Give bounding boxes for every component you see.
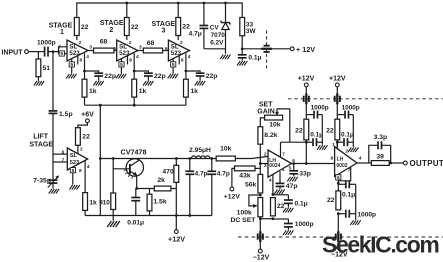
label CV 7070 6.2V — [210, 25, 225, 47]
wire branchB down — [336, 102, 338, 149]
op-amp U3 SL523 stage3 — [168, 40, 189, 61]
svg-text:1: 1 — [60, 29, 64, 36]
capacitor 22p stage3 — [186, 71, 218, 80]
svg-text:DC SET: DC SET — [230, 217, 256, 224]
ground bus bottom — [85, 215, 212, 217]
node rail-zener — [224, 2, 227, 5]
resistor 22 branchA — [295, 119, 309, 140]
capacitor 0.01u — [127, 189, 144, 227]
pin 6 box LH0002 — [336, 175, 341, 191]
svg-text:STAGE: STAGE — [29, 141, 53, 148]
wire 22 to stage1 pin2 — [77, 36, 82, 47]
wiper 10k — [275, 109, 290, 142]
wire 22 to stage3 pin2 — [178, 36, 183, 47]
inductor 2.95uH — [189, 147, 211, 159]
node stage3 out — [185, 70, 188, 73]
svg-text:+12V: +12V — [329, 76, 346, 83]
svg-text:8: 8 — [129, 58, 132, 64]
wire LH0002 out — [357, 162, 371, 164]
node 22 top — [272, 193, 275, 196]
svg-text:1.5k: 1.5k — [153, 198, 166, 205]
svg-text:56k: 56k — [245, 181, 257, 188]
label LIFT STAGE — [29, 133, 53, 148]
capacitor 0.1u branchB — [337, 131, 354, 146]
wire zener ground — [204, 49, 226, 54]
pin 6 label stage3 — [165, 46, 168, 52]
pin 3 label stage1 — [89, 45, 92, 51]
svg-text:2: 2 — [80, 147, 83, 153]
ground main — [107, 216, 120, 228]
wire emitter down — [136, 175, 138, 188]
label 100k DC SET — [230, 210, 256, 224]
node +12V supply — [241, 47, 244, 50]
svg-text:523: 523 — [119, 50, 130, 57]
svg-text:0.1μ: 0.1μ — [295, 200, 308, 207]
transistor Q1 CV7478 — [113, 159, 143, 176]
ground below 51 — [34, 77, 44, 86]
svg-text:22p: 22p — [206, 73, 218, 80]
capacitor 1000p LH0002 — [338, 210, 376, 219]
node 33p tap — [292, 162, 295, 165]
terminal +12V branchB — [329, 76, 346, 87]
wire branchA to output node — [305, 142, 307, 163]
shield dashed line vertical — [266, 31, 268, 69]
node input-split — [52, 50, 55, 53]
pin 8 lift — [79, 168, 82, 174]
svg-text:4: 4 — [359, 156, 362, 162]
pin 8 stage2 — [128, 56, 133, 65]
terminal -12V left — [253, 249, 270, 261]
wire +12V feed — [242, 48, 262, 50]
wire 33 to +12V node — [241, 36, 243, 49]
label STAGE 1 — [49, 22, 73, 36]
resistor 1k stage3 — [184, 79, 199, 97]
svg-text:1k: 1k — [139, 88, 147, 95]
resistor 22 stage2 collector — [124, 3, 138, 36]
pin 6 box stage1 — [59, 51, 64, 57]
svg-text:7: 7 — [282, 151, 285, 157]
svg-text:0.01μ: 0.01μ — [127, 219, 144, 226]
wire to +12V terminal — [271, 48, 290, 50]
input terminal INPUT — [2, 49, 29, 56]
pin 7 label stage1 — [59, 45, 62, 51]
svg-text:6: 6 — [62, 149, 65, 155]
svg-text:SET: SET — [259, 102, 273, 109]
wire to OUTPUT — [391, 162, 404, 164]
wire +6V to 22 — [78, 123, 88, 128]
wire top +6V supply rail — [77, 3, 242, 18]
ground 47p — [274, 189, 284, 194]
pin 4 label LH0002 — [359, 156, 362, 162]
wire junction to pin3 — [260, 163, 268, 169]
feedthrough +12V top — [261, 46, 272, 52]
svg-text:OUTPUT: OUTPUT — [410, 159, 443, 168]
pin 4 wire LH0024 — [269, 174, 273, 194]
node bus stage2 — [133, 104, 136, 107]
svg-text:4: 4 — [136, 54, 139, 60]
resistor 470 — [162, 159, 178, 189]
wire pot bottom down — [259, 219, 261, 232]
svg-text:+12V: +12V — [224, 193, 241, 200]
node pin3 junction — [259, 162, 262, 165]
svg-text:8: 8 — [80, 58, 83, 64]
trimmer 7-35p — [33, 162, 59, 188]
node bus takeoff — [99, 104, 102, 107]
pin 1 label LH0002 — [332, 142, 335, 148]
svg-text:1k: 1k — [89, 88, 97, 95]
shield dashed line -12V — [238, 236, 443, 238]
wire 0.1u down — [355, 184, 357, 220]
svg-text:0.1μ: 0.1μ — [342, 191, 355, 198]
svg-text:523: 523 — [70, 160, 80, 166]
svg-text:SeekIC.com: SeekIC.com — [322, 232, 439, 258]
svg-text:2k: 2k — [157, 177, 165, 184]
feedthrough branchB — [335, 93, 340, 104]
svg-text:+ 12V: + 12V — [296, 45, 315, 54]
ground LH0002 bypass — [350, 220, 360, 225]
wire branchB to feedthrough — [336, 87, 338, 95]
svg-text:33p: 33p — [299, 170, 311, 177]
label STAGE 3 — [151, 21, 175, 35]
ground below 22p stage2 — [143, 77, 153, 86]
node filter cap2 — [210, 157, 213, 160]
svg-text:22: 22 — [82, 133, 90, 140]
svg-text:1000p: 1000p — [357, 212, 376, 219]
pin 5 lift + ground — [69, 167, 79, 190]
wire branchB bypass down — [352, 115, 354, 147]
pin 4 wire lift — [85, 161, 90, 193]
node output — [389, 162, 392, 165]
svg-text:10k: 10k — [220, 145, 232, 152]
svg-text:4: 4 — [269, 177, 272, 183]
wire input — [28, 51, 41, 53]
wire 1.5p to lift — [52, 114, 54, 162]
capacitor 1000p branchA — [306, 105, 329, 119]
resistor 51 — [36, 52, 50, 77]
svg-text:7: 7 — [62, 158, 65, 164]
pin 8 label LH0002 — [331, 155, 334, 161]
svg-text:CV: CV — [210, 25, 220, 32]
pin 7 wire lift — [53, 158, 67, 164]
svg-text:8.2k: 8.2k — [264, 132, 277, 139]
ground branchB — [348, 147, 358, 152]
resistor 8.2k — [258, 127, 278, 145]
node 910/base — [112, 157, 115, 160]
svg-text:5: 5 — [172, 62, 175, 68]
wire -12V right — [337, 241, 339, 246]
svg-text:0.1μ: 0.1μ — [248, 54, 261, 61]
terminal +12V bottom — [168, 230, 185, 244]
pin 6 label stage2 — [113, 46, 116, 52]
wire +12V to 43k — [232, 168, 235, 187]
svg-text:+6V: +6V — [81, 111, 94, 118]
svg-text:3: 3 — [89, 45, 92, 51]
svg-text:2: 2 — [264, 151, 267, 157]
wire input down — [52, 52, 54, 111]
ground below 22p stage3 — [195, 77, 205, 86]
wire 22 to stage2 pin2 — [127, 36, 132, 47]
svg-text:SL: SL — [70, 153, 78, 159]
svg-text:100k: 100k — [237, 210, 252, 217]
pin 2 label LH0002 — [346, 149, 349, 155]
svg-text:6.2V: 6.2V — [210, 40, 224, 47]
svg-text:1000p: 1000p — [295, 221, 314, 228]
capacitor 0.1u supply — [238, 49, 262, 62]
pin 5 stage3 + ground — [168, 59, 178, 79]
pin 5 label LH0024 — [289, 166, 292, 171]
ground 0.1u supply — [237, 61, 247, 66]
node 1000p tap — [337, 212, 340, 215]
wire to -12V terminal left — [259, 241, 261, 250]
wire 8.2k to pot — [260, 118, 264, 127]
svg-text:+12V: +12V — [298, 76, 315, 83]
svg-text:68: 68 — [100, 39, 108, 46]
node emitter — [135, 187, 138, 190]
svg-text:LIFT: LIFT — [33, 133, 48, 140]
ground branchA — [317, 145, 327, 150]
svg-text:1.5p: 1.5p — [59, 111, 73, 118]
node 470 top — [175, 157, 178, 160]
svg-text:6: 6 — [165, 46, 168, 52]
resistor 1.5k — [147, 189, 167, 211]
pin 3 label stage2 — [139, 45, 142, 51]
resistor 1k lift — [83, 193, 97, 211]
wire 1k stage2 to bus — [133, 97, 135, 105]
svg-text:INPUT: INPUT — [2, 49, 24, 56]
resistor 68 first — [88, 39, 117, 53]
svg-text:22: 22 — [277, 203, 285, 210]
potentiometer 100k DC SET — [249, 195, 263, 217]
pin 5 stage2 + ground — [116, 59, 126, 79]
svg-text:5: 5 — [70, 62, 73, 68]
node branchA bottom — [305, 162, 308, 165]
capacitor 4.7u — [189, 3, 209, 49]
wire 1.5k to ground bus — [149, 211, 151, 216]
svg-text:2: 2 — [129, 40, 132, 46]
svg-text:GAIN: GAIN — [257, 109, 275, 116]
wire branchB to pin1 — [336, 142, 338, 148]
label STAGE 2 — [100, 20, 124, 34]
watermark SeekIC.com — [322, 232, 439, 258]
resistor 39 output — [371, 153, 389, 165]
resistor 22 lift — [76, 128, 91, 146]
node stage2 out — [133, 70, 136, 73]
resistor 22 stage3 collector — [176, 3, 190, 36]
resistor 43k — [235, 166, 256, 179]
svg-text:10k: 10k — [269, 122, 281, 129]
capacitor 0.1u LH0024 — [273, 195, 308, 208]
svg-text:0.1μ: 0.1μ — [341, 131, 354, 138]
node pot bottom — [259, 217, 262, 220]
capacitor 1000p branchB — [337, 105, 360, 119]
wire 1k stage1 to bus — [84, 97, 86, 105]
svg-text:0024: 0024 — [269, 163, 280, 169]
capacitor 0.1u LH0002 — [338, 180, 355, 198]
wire branchA down — [305, 102, 307, 142]
svg-text:7-35p: 7-35p — [33, 178, 51, 185]
wire 910 to ground bus — [112, 210, 114, 216]
op-amp U2 SL523 stage2 — [117, 40, 138, 61]
svg-text:4.7p: 4.7p — [195, 170, 208, 177]
svg-text:22p: 22p — [104, 73, 116, 80]
capacitor 4.7p first — [185, 159, 207, 216]
resistor 56k — [245, 174, 263, 193]
svg-text:8: 8 — [331, 155, 334, 161]
capacitor 22p stage2 — [134, 71, 166, 80]
svg-text:4: 4 — [188, 54, 191, 60]
svg-text:1000p: 1000p — [311, 105, 329, 112]
label SET GAIN — [257, 102, 275, 116]
ground 1000p LH0024 — [283, 230, 293, 235]
terminal +6V lift — [81, 111, 94, 122]
node branchA pin7 — [305, 141, 308, 144]
capacitor 0.1u branchA — [306, 131, 323, 146]
node rail-4.7u — [203, 2, 206, 5]
wire signal line — [100, 158, 216, 160]
svg-text:47p: 47p — [286, 183, 298, 190]
svg-text:470: 470 — [162, 169, 174, 176]
capacitor 1.5p — [49, 111, 73, 118]
terminal +12V bias — [224, 187, 241, 200]
resistor 22 stage1 collector — [74, 18, 88, 36]
pin 4 wire stage3 — [186, 53, 191, 79]
svg-text:523: 523 — [171, 50, 182, 57]
wire bus down to ground bus — [99, 159, 101, 216]
potentiometer 10k SET GAIN — [265, 115, 283, 128]
wire emitter to 2k — [137, 188, 155, 190]
op-amp U1 SL523 stage1 — [67, 40, 88, 61]
svg-text:22p: 22p — [154, 73, 166, 80]
svg-text:3: 3 — [162, 28, 166, 35]
svg-text:2: 2 — [109, 27, 113, 34]
ground below 22p stage1 — [93, 77, 103, 86]
svg-text:6: 6 — [337, 175, 340, 181]
node rail-stage3 — [177, 2, 180, 5]
pin 8 stage1 — [78, 56, 83, 65]
svg-text:3: 3 — [139, 45, 142, 51]
svg-text:43k: 43k — [239, 172, 251, 179]
zener CV7070 — [221, 3, 231, 49]
svg-text:5: 5 — [120, 62, 123, 68]
wire 22 to lift pin2 — [78, 145, 83, 154]
wire 1k stage3 to bus — [185, 97, 187, 105]
wire bus down to signal line — [99, 105, 101, 158]
capacitor 1000p input — [37, 40, 56, 57]
svg-text:3.3p: 3.3p — [374, 134, 388, 141]
op-amp U6 LH0002 — [335, 147, 357, 177]
capacitor 33p — [289, 164, 311, 178]
svg-text:2.95μH: 2.95μH — [189, 147, 211, 154]
resistor 910 — [99, 159, 115, 210]
resistor 1k stage2 — [132, 79, 147, 97]
wire to stage1 pin7 — [53, 47, 67, 52]
svg-text:CV7478: CV7478 — [121, 147, 147, 156]
node signal takeoff — [99, 157, 102, 160]
svg-text:1k: 1k — [89, 199, 97, 206]
svg-text:1000p: 1000p — [37, 40, 56, 47]
wire to stage1 pin6 — [59, 52, 68, 54]
svg-text:2: 2 — [180, 40, 183, 46]
svg-text:5: 5 — [72, 168, 75, 174]
transistor case ticks — [124, 170, 133, 179]
pin 6 wire lift — [53, 149, 67, 155]
svg-text:4: 4 — [87, 164, 90, 170]
wire 1k lift to ground bus — [84, 210, 86, 215]
capacitor 47p — [276, 171, 298, 190]
pin 4 wire stage2 — [134, 53, 139, 79]
svg-text:39: 39 — [376, 153, 384, 160]
node 22 bottom — [272, 217, 275, 220]
wire pot bottom to 22 — [260, 218, 273, 220]
node stage1 out — [83, 70, 86, 73]
pin 5 stage1 + ground — [66, 59, 76, 79]
svg-text:523: 523 — [69, 50, 80, 57]
terminal +12V branchA — [298, 76, 315, 87]
svg-text:51: 51 — [43, 65, 51, 72]
svg-text:3W: 3W — [246, 28, 257, 35]
ground trimmer — [49, 184, 59, 194]
wire 10k to LH0024 pin2 — [235, 151, 268, 158]
svg-text:6: 6 — [60, 51, 63, 57]
svg-text:4: 4 — [86, 54, 89, 60]
terminal OUTPUT — [403, 159, 443, 168]
wire 43k to junction — [255, 167, 260, 169]
pin 1 label LH0024 — [282, 167, 285, 172]
svg-text:22: 22 — [131, 24, 139, 31]
shield dashed line +12V — [288, 98, 443, 100]
svg-text:LH: LH — [337, 156, 344, 162]
svg-text:2: 2 — [346, 149, 349, 155]
feedthrough branchA — [304, 93, 309, 104]
svg-text:2: 2 — [79, 40, 82, 46]
svg-text:7: 7 — [59, 45, 62, 51]
node rail-stage2 — [125, 2, 128, 5]
wire LH0024 out — [292, 163, 335, 165]
svg-text:0.1μ: 0.1μ — [310, 131, 323, 138]
svg-text:7070: 7070 — [211, 32, 226, 39]
svg-text:8: 8 — [79, 168, 82, 174]
svg-text:3: 3 — [264, 163, 267, 169]
svg-text:4.7p: 4.7p — [217, 170, 230, 177]
pin 7 wire LH0024 — [281, 142, 307, 157]
capacitor 3.3p feedback — [369, 134, 391, 163]
resistor 22 branchB — [326, 119, 340, 140]
wire 470 junction down — [175, 189, 177, 230]
wire branchA bypass down — [321, 115, 323, 145]
op-amp U4 SL523 lift — [67, 148, 87, 170]
node branchB 0.1u — [336, 141, 339, 144]
svg-text:1000p: 1000p — [342, 105, 360, 112]
resistor 22 LH0002 — [327, 191, 341, 210]
pin 6 label LH0024 — [292, 158, 295, 164]
svg-text:6: 6 — [113, 46, 116, 52]
resistor 33 3W — [240, 18, 257, 36]
svg-text:8: 8 — [181, 58, 184, 64]
capacitor 4.7p second — [207, 159, 229, 216]
feedthrough -12V right — [336, 231, 341, 242]
node filter cap1 — [188, 157, 191, 160]
resistor 10k filter — [216, 145, 235, 161]
svg-text:68: 68 — [147, 40, 155, 47]
op-amp U5 LH0024 — [268, 150, 292, 177]
node pin6 chain — [337, 182, 340, 185]
wire 22 down — [337, 214, 339, 233]
wire 2k to 470 — [171, 188, 176, 190]
ground 0.1u LH0024 — [283, 208, 293, 213]
wire emitter bus — [85, 104, 186, 106]
terminal -12V right — [331, 246, 348, 259]
node cap1 ground bus — [188, 214, 191, 217]
